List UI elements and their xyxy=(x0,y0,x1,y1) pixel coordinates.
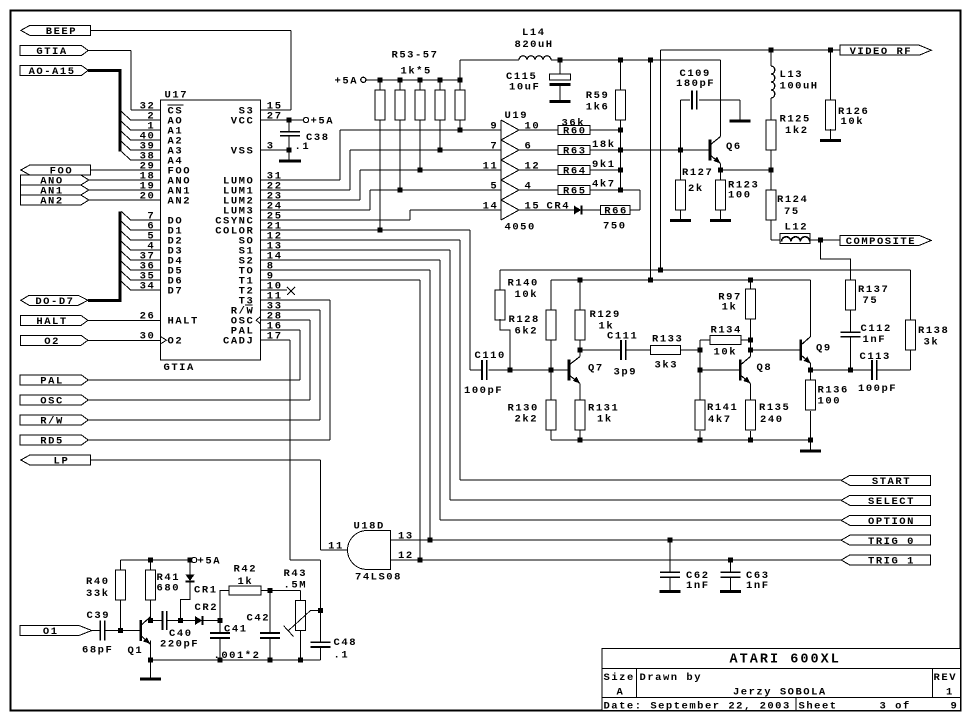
wire xyxy=(680,150,682,180)
svg-text:Date: September 22, 2003: Date: September 22, 2003 xyxy=(604,701,790,713)
bus entry D6 xyxy=(122,272,131,281)
flag O2 xyxy=(21,335,88,345)
+5A terminal xyxy=(361,77,366,82)
svg-text:220pF: 220pF xyxy=(160,638,198,650)
resistor R124 xyxy=(766,190,776,220)
wire xyxy=(626,349,651,351)
svg-text:5: 5 xyxy=(490,180,496,192)
wire T0 xyxy=(261,269,431,271)
junction C42 top xyxy=(268,588,273,593)
diode CR4 xyxy=(574,206,581,215)
junction CR1 top xyxy=(188,558,193,563)
svg-text:Sheet: Sheet xyxy=(799,701,837,713)
junction Q9 base net xyxy=(748,348,753,353)
junction C42 bottom xyxy=(268,658,273,663)
wire R/W net xyxy=(88,419,320,421)
wire START net xyxy=(460,479,841,481)
wire xyxy=(730,577,732,590)
ground C115 xyxy=(550,100,571,103)
wire xyxy=(559,86,561,100)
svg-text:15: 15 xyxy=(525,200,539,212)
svg-text:7: 7 xyxy=(490,140,496,152)
svg-text:R66: R66 xyxy=(604,206,626,218)
junction C109/Q6 base xyxy=(678,148,683,153)
flag AN1 xyxy=(21,185,89,195)
bus entry A3 xyxy=(122,142,131,151)
wire +5A bias rail Q1 xyxy=(121,559,191,561)
svg-text:COMPOSITE: COMPOSITE xyxy=(846,236,915,248)
wire SELECT net xyxy=(450,499,841,501)
wire Q7 collector xyxy=(579,350,581,357)
transistor Q7 xyxy=(568,360,571,381)
bus entry D0 xyxy=(122,212,131,221)
wire LUM1 to U19 pin7 xyxy=(350,149,501,151)
wire xyxy=(399,80,401,90)
wire xyxy=(579,340,581,350)
junction rail R at x420 xyxy=(418,77,423,82)
svg-text:O2: O2 xyxy=(44,336,58,348)
wire R59 bottom rail xyxy=(620,120,622,190)
svg-text:R59: R59 xyxy=(586,90,608,102)
wire xyxy=(299,330,301,380)
wire LUM0 xyxy=(261,179,341,181)
wire Q6 collector supply xyxy=(720,60,722,137)
wire xyxy=(550,280,552,310)
svg-text:100pF: 100pF xyxy=(464,385,502,397)
svg-text:Jerzy SOBOLA: Jerzy SOBOLA xyxy=(733,686,826,698)
wire xyxy=(699,340,701,400)
junction R59 top xyxy=(618,57,623,62)
svg-text:R63: R63 xyxy=(563,146,585,158)
svg-text:ATARI 600XL: ATARI 600XL xyxy=(730,653,839,668)
wire RD5 net xyxy=(88,439,330,441)
wire emitter ground rail xyxy=(551,439,811,441)
wire xyxy=(749,431,751,440)
wire T2 stub xyxy=(261,289,288,291)
wire R/W pin xyxy=(261,309,321,311)
wire xyxy=(320,647,322,660)
wire OSC net xyxy=(88,399,310,401)
svg-text:C110: C110 xyxy=(475,350,505,362)
wire xyxy=(339,130,341,180)
wire xyxy=(519,129,558,131)
svg-text:Drawn by: Drawn by xyxy=(640,672,702,684)
junction R5x bottom x380 xyxy=(378,228,383,233)
svg-text:3k3: 3k3 xyxy=(655,359,677,371)
svg-text:1k2: 1k2 xyxy=(785,125,807,137)
junction R5x bottom x420 xyxy=(418,168,423,173)
wire +5 distribution xyxy=(551,59,721,61)
wire xyxy=(499,270,501,290)
wire Q9 emitter xyxy=(810,364,812,371)
svg-text:O2: O2 xyxy=(168,336,182,348)
capacitor C109 xyxy=(691,91,693,110)
wire VSS pin3 xyxy=(261,149,290,151)
ground C62 xyxy=(660,590,681,593)
svg-text:R140: R140 xyxy=(508,277,538,289)
flag D0-D7 xyxy=(21,295,88,305)
svg-text:START: START xyxy=(872,476,910,488)
wire VCC pin27 xyxy=(261,119,304,121)
wire xyxy=(269,638,271,660)
wire CSYNC to U19 pin14 xyxy=(410,209,501,211)
junction Q9 emitter xyxy=(808,368,813,373)
svg-text:O1: O1 xyxy=(43,626,57,638)
svg-text:36k: 36k xyxy=(562,117,584,129)
junction C62 xyxy=(668,538,673,543)
transistor Q8 xyxy=(739,360,742,381)
svg-text:+5A: +5A xyxy=(311,116,334,128)
resistor R63 xyxy=(558,146,590,155)
transistor Q1 xyxy=(139,620,142,641)
ground C109 xyxy=(730,120,751,123)
gate U18D 74LS08 xyxy=(348,531,391,570)
wire xyxy=(583,209,601,211)
svg-text:R128: R128 xyxy=(509,314,539,326)
flag SELECT xyxy=(841,495,931,505)
wire xyxy=(149,600,151,621)
svg-text:GTIA: GTIA xyxy=(164,362,194,374)
wire xyxy=(419,80,421,90)
junction +5 drop xyxy=(648,278,653,283)
wire xyxy=(669,540,671,572)
svg-text:820uH: 820uH xyxy=(515,39,553,51)
wire xyxy=(288,136,290,150)
wire xyxy=(320,460,322,550)
svg-text:.1: .1 xyxy=(334,649,348,661)
wire xyxy=(550,430,552,440)
transistor Q6 xyxy=(709,140,712,161)
svg-text:R130: R130 xyxy=(508,402,538,414)
wire Q9 collector xyxy=(810,280,812,337)
svg-text:R40: R40 xyxy=(86,576,108,588)
junction L13 top xyxy=(768,47,773,52)
resistor R5x at x400 xyxy=(395,90,405,120)
resistor R42 xyxy=(229,586,261,595)
buffer U19 row 170 xyxy=(501,160,519,180)
flag AN2 xyxy=(21,195,89,205)
wire xyxy=(449,250,451,500)
svg-text:100uH: 100uH xyxy=(780,80,818,92)
junction R135 bottom xyxy=(748,438,753,443)
svg-text:U18D: U18D xyxy=(354,521,384,533)
junction T0/gate13 xyxy=(428,538,433,543)
wire xyxy=(359,170,361,200)
wire pin A0 xyxy=(131,119,161,121)
wire xyxy=(770,170,772,190)
wire LUM3 xyxy=(261,209,371,211)
wire xyxy=(130,51,132,111)
flag HALT xyxy=(21,315,88,325)
wire Q8 emitter xyxy=(749,384,751,401)
svg-text:27: 27 xyxy=(267,110,281,122)
ground video section xyxy=(800,450,821,453)
svg-text:6k2: 6k2 xyxy=(515,325,537,337)
svg-text:R133: R133 xyxy=(652,333,682,345)
wire pin A4 xyxy=(131,159,161,161)
wire xyxy=(290,559,321,561)
junction R5x bottom x440 xyxy=(438,148,443,153)
resistor R60 xyxy=(558,126,590,135)
wire xyxy=(877,369,911,371)
wire video net vertical xyxy=(660,50,662,270)
resistor R141 xyxy=(695,400,705,430)
svg-text:HALT: HALT xyxy=(168,316,198,328)
svg-text:L12: L12 xyxy=(785,221,807,233)
wire xyxy=(320,560,322,642)
capacitor C62 xyxy=(660,571,680,573)
resistor R97 xyxy=(745,289,755,319)
wire xyxy=(300,631,302,661)
wire +5 distribution xyxy=(460,59,519,61)
svg-text:.1: .1 xyxy=(295,141,309,153)
wire AN1 xyxy=(89,189,161,191)
svg-text:R135: R135 xyxy=(759,402,789,414)
svg-text:11: 11 xyxy=(483,160,497,172)
svg-text:1k: 1k xyxy=(238,576,252,588)
flag VIDEO RF xyxy=(840,45,931,55)
capacitor C42 xyxy=(260,632,280,634)
wire pin A2 xyxy=(131,139,161,141)
wire xyxy=(489,369,510,371)
wire xyxy=(829,50,831,100)
ground Q1 xyxy=(140,678,161,681)
wire HALT xyxy=(88,319,161,321)
wire xyxy=(829,129,831,139)
svg-text:LP: LP xyxy=(54,456,68,468)
resistor R41 xyxy=(145,570,155,600)
svg-text:A: A xyxy=(617,686,624,698)
wire to C110 xyxy=(470,369,482,371)
svg-text:4050: 4050 xyxy=(505,221,535,233)
junction x620 y190 xyxy=(618,188,623,193)
svg-text:R42: R42 xyxy=(234,563,256,575)
wire emitter to R125 xyxy=(721,169,771,171)
resistor R135 xyxy=(745,400,755,430)
junction rail R at x400 xyxy=(398,77,403,82)
junction R5x bottom x400 xyxy=(398,188,403,193)
ground R127 xyxy=(670,219,691,222)
title divider date col xyxy=(795,698,797,711)
wire xyxy=(459,80,461,90)
junction R43 bottom xyxy=(298,658,303,663)
svg-text:C41: C41 xyxy=(224,624,246,636)
wire oscillator ground rail xyxy=(150,659,320,661)
wire gate out 13 / TRIG0 net xyxy=(391,539,842,541)
+5A terminal Q1 xyxy=(192,557,197,562)
wire xyxy=(669,577,671,590)
wire xyxy=(149,660,151,678)
resistor R126 xyxy=(825,100,835,130)
junction x620 y130 xyxy=(618,128,623,133)
svg-text:OSC: OSC xyxy=(40,396,63,408)
wire pin D6 xyxy=(131,279,161,281)
resistor R5x at x440 xyxy=(435,90,445,120)
junction R136 bottom xyxy=(808,438,813,443)
wire Q7 emitter xyxy=(579,384,581,401)
wire S0 xyxy=(261,239,461,241)
buffer U19 row 210 xyxy=(501,200,519,220)
junction C115 xyxy=(558,57,563,62)
wire gate out 12 / TRIG1 net xyxy=(391,559,842,561)
buffer U19 row 130 xyxy=(501,120,519,140)
resistor R5x at x420 xyxy=(415,90,425,120)
junction Q7 base node xyxy=(549,368,554,373)
svg-text:9: 9 xyxy=(951,701,957,713)
wire xyxy=(590,129,621,131)
wire xyxy=(319,310,321,420)
wire Q8 base xyxy=(700,369,740,371)
resistor R64 xyxy=(558,166,590,175)
resistor R127 xyxy=(676,180,686,210)
wire xyxy=(519,209,574,211)
wire GTIA flag to CS xyxy=(88,50,131,52)
wire xyxy=(910,270,912,320)
bus entry D5 xyxy=(122,262,131,271)
wire xyxy=(439,260,441,520)
junction CADJ/trimmer xyxy=(318,608,323,613)
bus entry A0 xyxy=(122,112,131,121)
svg-text:CR4: CR4 xyxy=(547,200,569,212)
wire CADJ down xyxy=(289,340,291,560)
wire video bias net xyxy=(500,269,911,271)
flag A0-A15 xyxy=(20,65,88,75)
wire xyxy=(349,150,351,190)
resistor R130 xyxy=(546,400,556,430)
svg-text:C39: C39 xyxy=(87,610,109,622)
CS overline xyxy=(168,104,184,106)
wire riser to L14 net xyxy=(459,60,461,80)
flag AN0 xyxy=(21,175,89,185)
junction CR2 out xyxy=(218,618,223,623)
OSC pin input arrow xyxy=(256,317,260,324)
diode CR2 xyxy=(195,616,202,625)
svg-text:3p9: 3p9 xyxy=(614,366,636,378)
junction emitter/rail xyxy=(148,658,153,663)
wire pin D2 xyxy=(131,239,161,241)
resistor R125 xyxy=(766,120,776,150)
svg-text:CR2: CR2 xyxy=(195,602,217,614)
junction Q7 collector xyxy=(578,348,583,353)
svg-text:R125: R125 xyxy=(780,114,810,126)
+5A terminal at VCC xyxy=(303,117,308,122)
svg-text:20: 20 xyxy=(140,190,154,202)
wire F00 xyxy=(91,169,161,171)
wire xyxy=(620,60,622,90)
resistor R133 xyxy=(651,346,681,355)
junction R97 top xyxy=(748,278,753,283)
wire xyxy=(167,620,195,622)
wire T3 xyxy=(261,299,331,301)
svg-text:2k2: 2k2 xyxy=(515,414,537,426)
svg-text:10k: 10k xyxy=(841,116,863,128)
svg-text:R43: R43 xyxy=(284,568,306,580)
wire pin D0 xyxy=(131,219,161,221)
junction rail R at x460 xyxy=(458,77,463,82)
svg-text:680: 680 xyxy=(157,583,179,595)
junction R126 top xyxy=(828,47,833,52)
wire xyxy=(419,120,421,170)
wire xyxy=(680,210,682,219)
wire T1 xyxy=(261,279,421,281)
wire Q1 emitter xyxy=(149,641,151,661)
svg-text:1nF: 1nF xyxy=(686,580,708,592)
svg-text:1k: 1k xyxy=(722,302,736,314)
svg-text:R141: R141 xyxy=(707,402,737,414)
resistor R65 xyxy=(558,186,590,195)
wire xyxy=(579,280,581,310)
wire video RF net xyxy=(661,49,842,51)
svg-text:VCC: VCC xyxy=(231,116,254,128)
junction Q8 base xyxy=(698,368,703,373)
resistor R136 xyxy=(806,380,816,410)
bus entry D7 xyxy=(122,282,131,291)
svg-text:HALT: HALT xyxy=(36,316,66,328)
svg-text:C42: C42 xyxy=(247,612,269,624)
wire OSC pin xyxy=(261,319,311,321)
flag GTIA xyxy=(20,46,88,56)
svg-text:3: 3 xyxy=(267,140,273,152)
svg-text:R/W: R/W xyxy=(40,416,63,428)
resistor R134 xyxy=(710,336,741,345)
junction R141 bottom xyxy=(698,438,703,443)
svg-text:BEEP: BEEP xyxy=(46,26,76,38)
wire emitter out xyxy=(811,369,851,371)
wire xyxy=(519,149,558,151)
wire xyxy=(559,60,561,74)
wire xyxy=(699,431,701,440)
wire xyxy=(770,150,772,170)
wire xyxy=(910,350,912,370)
wire xyxy=(269,591,271,634)
svg-text:R134: R134 xyxy=(711,324,741,336)
wire xyxy=(550,370,552,400)
wire xyxy=(120,600,122,631)
wire xyxy=(590,189,640,191)
junction R131 bottom xyxy=(578,438,583,443)
svg-text:1: 1 xyxy=(946,686,952,698)
wire xyxy=(749,319,751,340)
wire gate input pin11 xyxy=(321,549,348,551)
resistor R138 xyxy=(906,320,916,350)
bus entry A2 xyxy=(122,132,131,141)
wire xyxy=(550,340,552,370)
junction R140/C110 xyxy=(508,368,513,373)
wire PAL net xyxy=(88,379,300,381)
flag F00 xyxy=(21,165,91,175)
transistor Q9 xyxy=(800,340,803,361)
wire xyxy=(329,300,331,440)
ground C63 xyxy=(720,590,741,593)
flag COMPOSITE xyxy=(840,235,931,245)
svg-text:VIDEO RF: VIDEO RF xyxy=(850,46,911,58)
svg-text:C38: C38 xyxy=(306,132,328,144)
resistor R137 xyxy=(845,280,855,310)
ground C38 xyxy=(279,160,301,163)
wire R140 bottom xyxy=(500,319,510,370)
inductor L13 xyxy=(771,66,775,98)
wire xyxy=(699,99,740,101)
wire pin D7 xyxy=(131,289,161,291)
flag LP xyxy=(21,455,91,465)
svg-text:Size: Size xyxy=(604,672,634,684)
wire pin D3 xyxy=(131,249,161,251)
junction Q1 collector xyxy=(148,618,153,623)
wire xyxy=(590,169,621,171)
wire S1 xyxy=(261,249,451,251)
junction Q6 emitter xyxy=(718,168,723,173)
wire pin D5 xyxy=(131,269,161,271)
